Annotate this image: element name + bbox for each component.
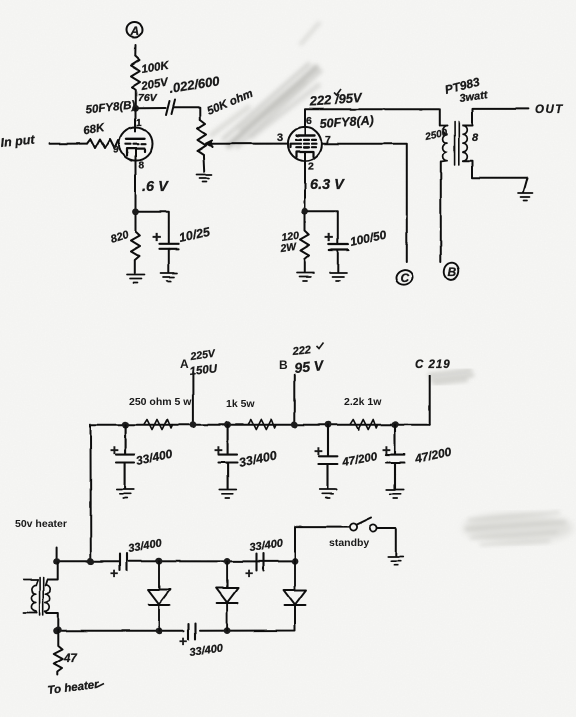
svg-text:A: A	[130, 24, 140, 38]
svg-text:76V: 76V	[138, 92, 158, 104]
svg-text:B: B	[448, 265, 457, 279]
svg-text:9: 9	[113, 145, 119, 156]
svg-text:6: 6	[306, 115, 312, 127]
svg-text:8: 8	[472, 132, 479, 144]
svg-text:C: C	[401, 271, 410, 285]
svg-text:250 ohm 5 w: 250 ohm 5 w	[129, 396, 192, 408]
svg-text:47: 47	[63, 653, 77, 665]
svg-text:2W: 2W	[279, 241, 298, 255]
svg-text:7: 7	[325, 134, 331, 146]
svg-text:1: 1	[136, 118, 142, 129]
svg-text:+: +	[214, 442, 223, 459]
svg-text:2.2k 1w: 2.2k 1w	[344, 396, 382, 408]
svg-text:+: +	[179, 633, 187, 649]
svg-text:95 V: 95 V	[294, 357, 326, 376]
svg-text:+: +	[110, 565, 118, 581]
svg-text:B: B	[279, 358, 288, 372]
svg-text:OUT: OUT	[535, 104, 564, 116]
svg-text:1k 5w: 1k 5w	[226, 398, 255, 410]
svg-text:+: +	[152, 229, 161, 246]
svg-text:+: +	[382, 442, 391, 459]
svg-text:.6 V: .6 V	[142, 179, 169, 195]
svg-text:50v heater: 50v heater	[15, 518, 67, 530]
svg-text:standby: standby	[329, 537, 369, 549]
svg-text:+: +	[324, 229, 333, 246]
svg-text:A: A	[180, 357, 189, 371]
svg-text:6.3 V: 6.3 V	[310, 177, 345, 193]
svg-text:+: +	[110, 442, 119, 459]
svg-text:C 219: C 219	[415, 359, 451, 371]
svg-text:8: 8	[139, 161, 145, 172]
svg-text:+: +	[245, 565, 253, 581]
svg-text:2: 2	[308, 161, 314, 173]
svg-text:3: 3	[277, 132, 283, 144]
svg-text:+: +	[314, 443, 323, 460]
svg-text:222: 222	[291, 344, 312, 358]
